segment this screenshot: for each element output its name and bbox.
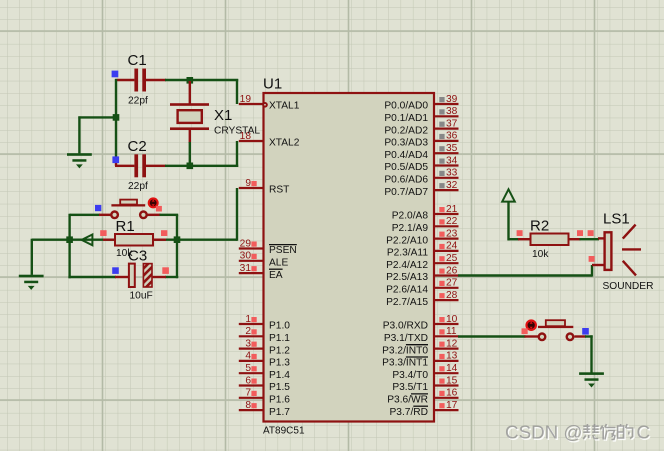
svg-text:30: 30 (240, 251, 252, 262)
pin 15 P3.5/T1 stub (435, 384, 459, 386)
power terminal arrow left (82, 235, 93, 246)
node ground branch junction (113, 114, 120, 121)
power terminal arrow up (502, 189, 515, 201)
wire C2 right pin (146, 165, 166, 167)
pin 31 state marker (251, 266, 256, 271)
svg-text:CSDN @: CSDN @ (505, 422, 583, 443)
overline INT1 (406, 356, 428, 358)
pin 18 XTAL2 stub (239, 140, 264, 142)
svg-text:P2.7/A15: P2.7/A15 (386, 297, 428, 308)
overline WR (411, 393, 428, 395)
svg-text:C: C (637, 422, 651, 443)
svg-text:34: 34 (446, 155, 458, 166)
wire button1 right pin (148, 214, 161, 216)
button1 actuator ring (148, 197, 159, 208)
svg-text:1: 1 (245, 314, 251, 325)
wire power stem (507, 202, 509, 241)
svg-text:8: 8 (245, 400, 251, 411)
wire P3.1 horizontal (458, 335, 526, 337)
pin 10 P3.0/RXD stub (435, 323, 459, 325)
svg-text:R2: R2 (530, 218, 549, 235)
svg-text:AT89C51: AT89C51 (263, 426, 305, 437)
pin 8 state marker (251, 403, 256, 408)
wire R1 right pin (152, 238, 166, 240)
push button RESET (111, 200, 146, 219)
pin 25 P2.4/A12 stub (435, 262, 459, 264)
svg-text:P2.1/A9: P2.1/A9 (392, 223, 429, 234)
capacitor C3 electrolytic (129, 264, 152, 287)
R2 marker right1 (577, 230, 583, 236)
pin 12 P3.2/INT0 stub (435, 348, 459, 350)
svg-text:3: 3 (245, 338, 251, 349)
wire button2 to corner (585, 335, 593, 337)
pin 35 state marker (439, 146, 444, 151)
pin 27 state marker (439, 281, 444, 286)
svg-text:P2.3/A11: P2.3/A11 (387, 248, 428, 259)
wire button2 left pin (525, 335, 539, 337)
svg-text:22pf: 22pf (128, 96, 148, 107)
pin 35 P0.4/AD4 stub (435, 152, 459, 154)
wire C3 right pin (153, 276, 166, 278)
pin 2 state marker (251, 329, 256, 334)
svg-text:29: 29 (240, 238, 252, 249)
pin 10 state marker (439, 317, 444, 322)
pin 38 P0.1/AD1 stub (435, 115, 459, 117)
svg-text:P0.1/AD1: P0.1/AD1 (384, 113, 428, 124)
wire crystal bottom stem maroon (189, 130, 191, 144)
svg-text:17: 17 (446, 400, 458, 411)
svg-text:P2.4/A12: P2.4/A12 (386, 260, 428, 271)
node crystal-top junction (187, 77, 194, 84)
svg-text:2: 2 (245, 326, 251, 337)
wire button1 to corner (160, 214, 179, 216)
pin 11 P3.1/TXD stub (435, 335, 459, 337)
overline INT0 (406, 344, 428, 346)
wire sounder bottom riser (591, 265, 593, 277)
pin 28 state marker (439, 293, 444, 298)
svg-text:22pf: 22pf (128, 181, 148, 192)
button1 marker pink (156, 206, 162, 212)
pin 30 ALE stub (239, 260, 264, 262)
svg-text:P2.2/A10: P2.2/A10 (386, 235, 428, 246)
wire RST riser (236, 188, 238, 241)
R2 marker right2 (588, 230, 594, 236)
wire C3 bottom left (68, 276, 116, 278)
pin 5 state marker (251, 366, 256, 371)
svg-text:P0.6/AD6: P0.6/AD6 (384, 175, 428, 186)
push button 2 (538, 320, 573, 340)
svg-text:XTAL1: XTAL1 (269, 101, 300, 112)
C2 terminal marker blue (112, 156, 119, 163)
pin 7 state marker (251, 391, 256, 396)
wire C1 to XTAL1 horizontal (165, 79, 238, 81)
pin 38 state marker (439, 109, 444, 114)
pin 31 EA stub (239, 272, 264, 274)
svg-text:P2.6/A14: P2.6/A14 (386, 285, 428, 296)
crystal X1 (170, 103, 209, 130)
overline EA (269, 268, 283, 270)
button1 marker blue (95, 205, 101, 211)
svg-text:P0.2/AD2: P0.2/AD2 (384, 125, 428, 136)
svg-text:16: 16 (446, 388, 458, 399)
pin 17 state marker (439, 403, 444, 408)
svg-text:10uF: 10uF (130, 291, 153, 302)
wire XTAL2 rise vertical (236, 141, 238, 167)
wire sounder top pin (598, 237, 605, 239)
svg-text:38: 38 (446, 106, 458, 117)
svg-text:P3.7/RD: P3.7/RD (389, 407, 428, 418)
wire C3 left pin (115, 276, 129, 278)
svg-text:SOUNDER: SOUNDER (603, 281, 654, 292)
R1 marker right (161, 230, 167, 236)
svg-text:CRYSTAL: CRYSTAL (214, 125, 260, 136)
pin 26 state marker (439, 269, 444, 274)
node button1-left junction (66, 236, 73, 243)
svg-text:EA: EA (269, 270, 283, 281)
pin 34 P0.5/AD5 stub (435, 164, 459, 166)
svg-text:C2: C2 (128, 138, 147, 155)
pin 13 P3.3/INT1 stub (435, 360, 459, 362)
ground G3 right (579, 372, 604, 387)
pin 22 state marker (439, 219, 444, 224)
wire left vertical C1-C2 (115, 79, 117, 163)
pin 29 state marker (251, 242, 256, 247)
pin 14 state marker (439, 366, 444, 371)
pin 37 state marker (439, 122, 444, 127)
svg-text:P3.4/T0: P3.4/T0 (392, 370, 428, 381)
wire right vertical button1-C3 (176, 215, 178, 278)
pin 4 P1.3 stub (239, 360, 264, 362)
pin 36 state marker (439, 134, 444, 139)
capacitor C2 (134, 154, 146, 177)
wire R1 left pin (103, 238, 116, 240)
svg-text:7: 7 (245, 388, 251, 399)
svg-text:27: 27 (446, 278, 458, 289)
CSDN watermark (506, 423, 651, 444)
wire C1 left pin (115, 79, 134, 81)
C3 marker pink (162, 267, 169, 274)
wire R2 left pin (518, 238, 531, 240)
svg-text:21: 21 (446, 204, 458, 215)
svg-text:19: 19 (240, 94, 252, 105)
wire P2.5 to sounder horizontal (458, 274, 592, 276)
R1 marker left (100, 230, 106, 236)
pin 32 state marker (439, 183, 444, 188)
svg-text:11: 11 (446, 326, 457, 337)
svg-text:XTAL2: XTAL2 (269, 138, 300, 149)
svg-text:22: 22 (446, 216, 458, 227)
svg-text:C1: C1 (128, 52, 147, 69)
button2 marker blue (582, 328, 589, 335)
pin 17 P3.7/RD stub (435, 409, 459, 411)
pin 16 state marker (439, 391, 444, 396)
svg-text:35: 35 (446, 143, 458, 154)
pin 21 P2.0/A8 stub (435, 213, 459, 215)
svg-text:P3.6/WR: P3.6/WR (387, 395, 428, 406)
wire RST horizontal (32, 238, 237, 240)
svg-text:15: 15 (446, 375, 458, 386)
wire ground3 stem (590, 335, 592, 372)
svg-text:5: 5 (245, 363, 251, 374)
pin 33 state marker (439, 171, 444, 176)
C1 terminal marker blue (112, 71, 119, 78)
wire button1 left pin (99, 214, 111, 216)
wire C3 bottom right (165, 276, 178, 278)
svg-text:P3.5/T1: P3.5/T1 (392, 382, 428, 393)
svg-text:P3.1/TXD: P3.1/TXD (384, 333, 428, 344)
pin 3 P1.2 stub (239, 348, 264, 350)
svg-text:P0.5/AD5: P0.5/AD5 (384, 162, 428, 173)
svg-text:P1.4: P1.4 (269, 370, 290, 381)
svg-text:26: 26 (446, 265, 458, 276)
button2 actuator ring (525, 319, 537, 331)
R2 marker left (517, 230, 523, 236)
wire button1 top-left (70, 214, 100, 216)
wire XTAL1 drop vertical (236, 79, 238, 104)
wire sounder bottom pin (592, 264, 605, 266)
pin 24 state marker (439, 244, 444, 249)
svg-text:P1.7: P1.7 (269, 407, 290, 418)
svg-text:13: 13 (446, 351, 458, 362)
wire C1 right pin (146, 79, 166, 81)
pin 27 P2.6/A14 stub (435, 287, 459, 289)
svg-text:P1.2: P1.2 (269, 345, 290, 356)
svg-text:P3.0/RXD: P3.0/RXD (383, 321, 428, 332)
overline PSEN (269, 244, 297, 246)
pin 16 P3.6/WR stub (435, 397, 459, 399)
svg-text:P1.0: P1.0 (269, 321, 290, 332)
pin 9 state marker (251, 181, 256, 186)
svg-text:P1.3: P1.3 (269, 358, 290, 369)
pin 1 state marker (251, 317, 256, 322)
wire C2 elbow (115, 161, 117, 166)
pin 24 P2.3/A11 stub (435, 250, 459, 252)
svg-text:39: 39 (446, 94, 458, 105)
wire C2 left pin (115, 165, 134, 167)
svg-text:P3.3/INT1: P3.3/INT1 (382, 358, 428, 369)
wire ground1 horizontal (78, 116, 116, 118)
svg-text:PSEN: PSEN (269, 245, 297, 256)
pin 25 state marker (439, 256, 444, 261)
svg-text:12: 12 (446, 338, 458, 349)
svg-text:6: 6 (245, 375, 251, 386)
wire R2 to sounder (580, 238, 600, 240)
svg-text:31: 31 (240, 263, 252, 274)
svg-text:10k: 10k (532, 249, 549, 260)
resistor R1 (115, 234, 153, 246)
svg-text:RST: RST (269, 185, 289, 196)
pin 13 state marker (439, 354, 444, 359)
pin 36 P0.3/AD3 stub (435, 140, 459, 142)
pin 2 P1.1 stub (239, 335, 264, 337)
ground G1 top-left (67, 153, 92, 168)
sounder LS1 (605, 225, 641, 276)
wire button2 right pin (575, 335, 587, 337)
pin 7 P1.6 stub (239, 397, 264, 399)
svg-text:36: 36 (446, 131, 458, 142)
node crystal-bottom junction (187, 163, 194, 170)
svg-text:R1: R1 (116, 218, 135, 235)
pin 11 state marker (439, 329, 444, 334)
wire C2 to XTAL2 horizontal (165, 165, 238, 167)
capacitor C1 (134, 69, 146, 92)
svg-text:U1: U1 (263, 76, 282, 93)
sounder bottom marker pink (589, 256, 595, 262)
svg-text:25: 25 (446, 253, 458, 264)
svg-text:9: 9 (245, 178, 251, 189)
svg-text:P0.0/AD0: P0.0/AD0 (384, 101, 428, 112)
svg-text:10: 10 (446, 314, 458, 325)
node R1-right junction (174, 236, 181, 243)
pin 3 state marker (251, 342, 256, 347)
svg-text:C3: C3 (128, 248, 147, 265)
svg-text:P3.2/INT0: P3.2/INT0 (382, 345, 428, 356)
button2 marker pink (522, 328, 528, 334)
svg-text:X1: X1 (214, 107, 232, 124)
wire RST left drop (31, 239, 33, 275)
svg-text:23: 23 (446, 228, 458, 239)
wire power to R2 (508, 238, 520, 240)
svg-text:4: 4 (245, 351, 251, 362)
pin 22 P2.1/A9 stub (435, 225, 459, 227)
pin 19 XTAL1 stub (239, 103, 264, 105)
pin 37 P0.2/AD2 stub (435, 128, 459, 130)
svg-text:ALE: ALE (269, 258, 288, 269)
svg-text:14: 14 (446, 363, 458, 374)
C3 marker blue (112, 267, 119, 274)
chip U1 body AT89C51 (264, 93, 435, 422)
pin 15 state marker (439, 379, 444, 384)
wire ground1 stem (78, 116, 80, 153)
pin 21 state marker (439, 207, 444, 212)
svg-text:P0.4/AD4: P0.4/AD4 (384, 150, 428, 161)
svg-text:P1.6: P1.6 (269, 395, 290, 406)
wire crystal top stem (189, 81, 191, 104)
pin 39 P0.0/AD0 stub (435, 103, 459, 105)
pin 4 state marker (251, 354, 256, 359)
pin 26 P2.5/A13 stub (435, 274, 459, 276)
pin 32 P0.7/AD7 stub (435, 189, 459, 191)
pin 23 state marker (439, 232, 444, 237)
wire left vertical button1-C3 (68, 214, 70, 278)
svg-text:P2.0/A8: P2.0/A8 (392, 211, 429, 222)
svg-text:P1.5: P1.5 (269, 382, 290, 393)
pin 6 P1.5 stub (239, 384, 264, 386)
pin 9 RST stub (239, 187, 264, 189)
svg-text:P1.1: P1.1 (269, 333, 290, 344)
svg-text:37: 37 (446, 118, 458, 129)
pin 33 P0.6/AD6 stub (435, 177, 459, 179)
pin 14 P3.4/T0 stub (435, 372, 459, 374)
pin 5 P1.4 stub (239, 372, 264, 374)
ground G2 left (19, 275, 44, 290)
svg-text:LS1: LS1 (603, 211, 630, 228)
XTAL1 pin bubble (262, 102, 268, 108)
svg-text:33: 33 (446, 168, 458, 179)
pin 6 state marker (251, 379, 256, 384)
pin 1 P1.0 stub (239, 323, 264, 325)
svg-text:32: 32 (446, 180, 458, 191)
svg-text:P0.7/AD7: P0.7/AD7 (384, 187, 428, 198)
pin 8 P1.7 stub (239, 409, 264, 411)
wire crystal bottom stem green (189, 142, 191, 165)
pin 39 state marker (439, 97, 444, 102)
svg-text:P2.5/A13: P2.5/A13 (386, 272, 428, 283)
pin 12 state marker (439, 342, 444, 347)
overline RD (413, 405, 428, 407)
wire R2 right pin (568, 238, 581, 240)
svg-text:28: 28 (446, 290, 458, 301)
pin 30 state marker (251, 254, 256, 259)
pin 28 P2.7/A15 stub (435, 299, 459, 301)
pin 23 P2.2/A10 stub (435, 238, 459, 240)
resistor R2 (531, 234, 569, 246)
pin 34 state marker (439, 159, 444, 164)
svg-text:24: 24 (446, 241, 458, 252)
pin 29 PSEN stub (239, 247, 264, 249)
svg-text:P0.3/AD3: P0.3/AD3 (384, 138, 428, 149)
